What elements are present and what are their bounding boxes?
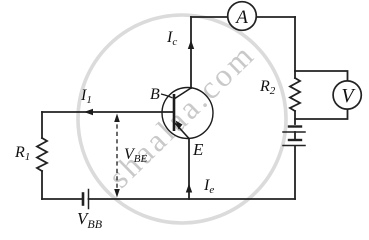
svg-text:A: A [234,7,248,28]
resistor R2 [290,78,300,111]
battery VBB positive plate (long) [88,190,90,209]
transistor Q1 emitter PNP arrow [176,121,183,130]
transistor Q1 base bar [173,94,176,131]
wire: ammeter to top-right corner [255,16,295,18]
wire: right vertical to R2 [294,17,296,78]
watermark circle [78,15,286,223]
battery VBB negative plate (short) [82,194,85,205]
transistor Q1 body circle [162,88,213,139]
ammeter A [228,2,257,31]
leader from B to base bar [161,94,173,98]
arrow Ic (up) [188,40,194,49]
VBE arrow up [114,114,120,123]
VBE arrow down [114,189,120,198]
battery VCC inter-cell stub [294,132,296,140]
emitter wire vertical [188,139,190,200]
battery VCC cell1 positive plate (long) [283,131,305,133]
wire: voltmeter branch bottom [295,109,348,119]
wire: right vertical lower [294,146,296,199]
VBE dashed measurement line [116,117,118,194]
voltmeter V [333,81,361,109]
collector wire vertical [190,17,192,88]
wire: left vertical upper [41,112,43,138]
wire: top-left horizontal (node B lead) [42,111,174,113]
arrow I1 (left) [84,109,93,115]
wire: voltmeter branch top [295,71,348,81]
wire: bottom horizontal (battery to right) [89,198,296,200]
battery VCC cell2 positive plate (long) [283,145,305,147]
wire: top to ammeter [191,16,227,18]
resistor R1 [37,138,47,171]
svg-text:E: E [192,140,204,159]
wire: bottom left to battery [42,198,83,200]
transistor Q1 collector lead [174,88,191,99]
arrow Ie (up) [186,184,192,193]
transistor Q1 emitter lead [174,122,189,139]
battery VCC cell2 negative plate (short) [289,139,301,141]
wire: R2 to battery [294,111,296,124]
wire: left vertical lower [41,171,43,199]
svg-text:B: B [150,86,160,103]
battery VCC cell1 negative plate (short) [289,125,301,127]
